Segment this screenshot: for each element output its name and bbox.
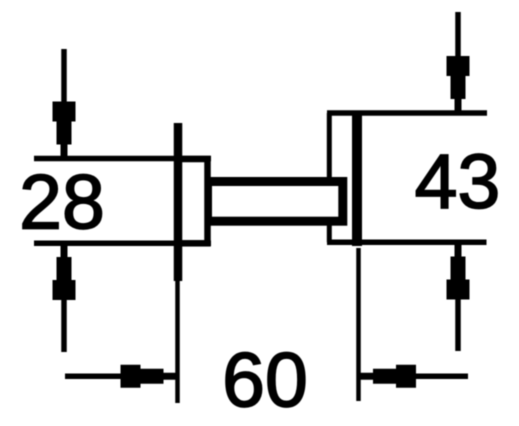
svg-text:60: 60	[222, 338, 308, 424]
collar rectangle	[178, 159, 208, 243]
28 bottom extension line	[34, 241, 211, 247]
flange top edge / 43 top extension line	[327, 110, 487, 116]
knob flange left edge	[327, 113, 332, 242]
rosette plate thick line	[174, 123, 183, 281]
flange bottom edge / 43 bottom extension line	[327, 240, 487, 246]
60 dimension line right segment	[410, 374, 468, 380]
60 left arrowhead (pointing right)	[121, 365, 177, 388]
43 dimension line bottom segment	[455, 292, 461, 351]
43 dimension line top segment	[455, 12, 461, 64]
60 right extension line	[356, 248, 361, 401]
60 dimension line left segment	[65, 374, 128, 380]
60 right arrowhead (pointing left)	[360, 365, 416, 388]
43 top arrowhead (pointing down)	[447, 56, 470, 112]
28 bottom arrowhead (pointing up)	[53, 244, 76, 300]
28 top arrowhead (pointing down)	[53, 102, 76, 158]
stem (neck) rectangle	[208, 182, 343, 222]
28 dimension line top segment	[61, 49, 67, 110]
43 bottom arrowhead (pointing up)	[447, 244, 470, 300]
svg-text:28: 28	[19, 160, 105, 246]
28 dimension line bottom segment	[61, 292, 67, 352]
svg-text:43: 43	[415, 139, 501, 225]
knob face thick line	[352, 113, 362, 246]
28 top extension line	[34, 156, 211, 162]
60 left extension line (below rosette)	[175, 281, 180, 403]
